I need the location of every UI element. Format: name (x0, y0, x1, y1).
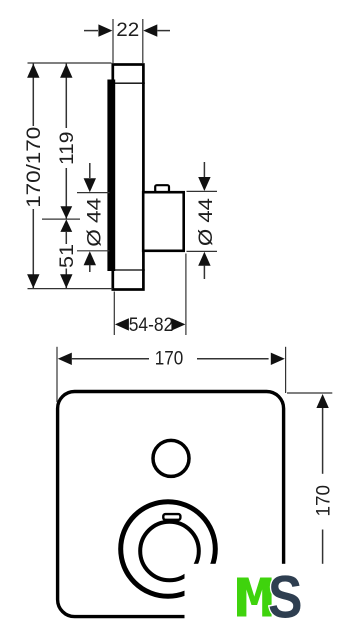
wall-side band (side view back plate) (107, 80, 115, 272)
dim 170 horizontal arrow left (58, 353, 72, 365)
dim 170/170 line lower (32, 209, 34, 288)
dim 119 line upper (65, 64, 67, 129)
node line at valve center left (42, 218, 80, 220)
dim 54-82 arrow left (115, 318, 129, 330)
dim right diameter 44 extension top (187, 190, 218, 192)
dim 22 arrow right (143, 24, 157, 36)
knob outer circle (121, 502, 216, 597)
small circle (diverter) (153, 440, 189, 476)
dim right diameter 44 arrow bottom (up) (198, 252, 210, 266)
dim 22 line left (84, 30, 98, 32)
svg-text:170: 170 (155, 348, 184, 369)
svg-text:S: S (268, 564, 303, 631)
dim 170 vertical line lower (322, 530, 324, 567)
divider line bottom of plate (109, 269, 145, 271)
svg-text:170: 170 (313, 485, 334, 517)
dim 22 line right (157, 30, 170, 32)
dim 170/170 extension top (28, 62, 112, 64)
svg-text:Ø 44: Ø 44 (196, 198, 217, 246)
knob inner circle (140, 522, 199, 581)
dim 51 line lower (65, 269, 67, 289)
valve tab (155, 185, 169, 192)
svg-text:51: 51 (57, 244, 78, 268)
valve body cylinder (143, 192, 184, 251)
dim right diameter 44 line upper (203, 162, 205, 177)
dim right diameter 44 extension bottom (187, 250, 218, 252)
watermark white box (185, 564, 354, 640)
dim 170/170 line upper (32, 64, 34, 127)
dim 54-82 arrow right (171, 318, 185, 330)
logo letter M (237, 578, 272, 617)
dim 170/170 arrow top (27, 64, 39, 78)
dim 170 vertical extension top (287, 392, 332, 394)
dim 170 vertical arrow top (316, 394, 328, 408)
svg-text:54-82: 54-82 (129, 315, 174, 336)
dim 170 horizontal arrow right (271, 353, 285, 365)
divider line top of plate (109, 82, 145, 84)
front view plate (58, 392, 284, 617)
dim 170 vertical line upper (322, 408, 324, 474)
svg-text:119: 119 (57, 132, 78, 166)
dim 54-82 extension right (185, 254, 187, 336)
dim 22 extension line right (142, 19, 144, 63)
svg-text:170/170: 170/170 (24, 127, 45, 208)
escutcheon side view outer rect (113, 65, 144, 290)
dim 51 arrow top (up) (60, 219, 72, 232)
dim 170 horizontal extension right (285, 347, 287, 393)
dim right diameter 44 line lower (203, 265, 205, 279)
dim 51 arrow bottom (60, 274, 72, 288)
svg-text:Ø 44: Ø 44 (84, 197, 105, 247)
dim 170 horizontal line right (197, 358, 269, 360)
dim 170/170 extension bottom (28, 288, 113, 290)
dim 170/170 arrow bottom (27, 274, 39, 288)
dim 119 arrow bottom (down) (60, 206, 72, 219)
dim left diameter 44 extension bottom (77, 250, 110, 252)
dim 170 horizontal line left (72, 358, 149, 360)
knob tab (163, 514, 180, 520)
dim right diameter 44 arrow top (down) (198, 177, 210, 191)
dim left diameter 44 line upper (89, 163, 91, 178)
dim left diameter 44 line lower (89, 265, 91, 272)
dim 22 extension line left (112, 19, 114, 63)
dim 51 line upper (65, 232, 67, 244)
dim 54-82 extension left (113, 292, 115, 336)
dim 170 horizontal extension left (56, 347, 58, 402)
svg-text:22: 22 (116, 20, 139, 41)
dim 22 arrow left (98, 24, 112, 36)
dim 119 arrow top (60, 64, 72, 78)
dim left diameter 44 arrow top (down) (84, 178, 96, 192)
dim 119 line lower (65, 168, 67, 219)
dim left diameter 44 arrow bottom (up) (84, 251, 96, 265)
dim left diameter 44 extension top (77, 192, 110, 194)
